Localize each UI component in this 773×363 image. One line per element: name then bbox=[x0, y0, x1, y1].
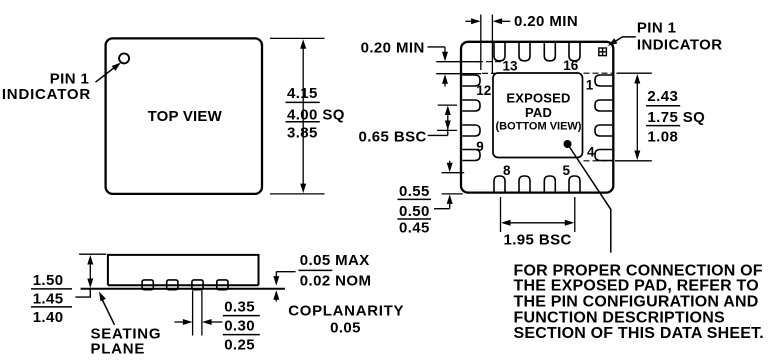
dashed continuation at top-pin bottom edge bbox=[477, 61, 503, 63]
bottom pins 8-5 bbox=[494, 176, 505, 192]
svg-text:0.25: 0.25 bbox=[224, 336, 255, 353]
fraction rule under 2.43 bbox=[646, 105, 680, 107]
side view package body bbox=[108, 255, 259, 285]
left pins 12-9 bbox=[462, 75, 480, 86]
svg-text:2.43: 2.43 bbox=[647, 88, 678, 105]
side view leads bbox=[142, 280, 153, 290]
svg-text:16: 16 bbox=[563, 58, 579, 73]
fraction rule under 4.00 bbox=[286, 121, 320, 123]
fraction rule under 0.05 bbox=[299, 269, 333, 271]
exposed pad outline bbox=[493, 73, 583, 158]
seating plane line bbox=[81, 288, 285, 290]
svg-text:4.15: 4.15 bbox=[287, 85, 318, 102]
svg-text:0.35: 0.35 bbox=[224, 298, 255, 315]
extension line b (lead width) bbox=[201, 291, 203, 336]
fraction rule under 0.50 bbox=[398, 218, 432, 220]
fraction rule under 4.15 bbox=[286, 101, 320, 103]
svg-text:1.45: 1.45 bbox=[33, 291, 64, 308]
arrows for lead width dim bbox=[175, 321, 185, 323]
pin 1 indicator circle (top view) bbox=[119, 53, 129, 63]
svg-text:0.45: 0.45 bbox=[399, 220, 430, 237]
dimension line 1.95 BSC bbox=[505, 222, 571, 224]
svg-text:1.95 BSC: 1.95 BSC bbox=[504, 232, 572, 249]
dimension line body height bbox=[89, 259, 91, 285]
leader from exposed pad dot to note bbox=[570, 147, 611, 253]
svg-text:4.00 SQ: 4.00 SQ bbox=[287, 106, 345, 123]
svg-text:INDICATOR: INDICATOR bbox=[637, 37, 723, 54]
svg-text:8: 8 bbox=[503, 163, 511, 178]
extension line b (1.95 BSC) bbox=[574, 197, 576, 232]
fraction rule under 0.55 bbox=[398, 198, 432, 200]
extension line b (0.65 BSC) bbox=[437, 129, 457, 131]
leader and arrows for standoff dim bbox=[276, 271, 295, 273]
svg-text:PLANE: PLANE bbox=[91, 341, 146, 358]
svg-text:PIN 1: PIN 1 bbox=[637, 19, 677, 36]
svg-text:4: 4 bbox=[587, 145, 595, 160]
exposed pad reference dot bbox=[564, 140, 572, 148]
svg-text:COPLANARITY: COPLANARITY bbox=[288, 303, 404, 320]
extension line a (0.65 BSC) bbox=[438, 104, 457, 106]
dashed continuation at pad top-left bbox=[482, 72, 500, 74]
svg-text:SECTION OF THIS DATA SHEET.: SECTION OF THIS DATA SHEET. bbox=[514, 325, 764, 342]
svg-text:1: 1 bbox=[586, 77, 594, 92]
svg-text:0.55: 0.55 bbox=[399, 183, 430, 200]
svg-text:12: 12 bbox=[476, 83, 491, 98]
svg-text:THE PIN CONFIGURATION AND: THE PIN CONFIGURATION AND bbox=[514, 293, 759, 310]
fraction rule under 0.30 bbox=[223, 334, 260, 336]
leader arrow to pin1 indicator symbol bbox=[612, 37, 636, 44]
extension line bottom (4.00 SQ dim) bbox=[270, 193, 325, 195]
extension line b (left 0.20 MIN) bbox=[436, 73, 481, 75]
fraction rule under 1.75 bbox=[646, 125, 680, 127]
svg-text:0.02 NOM: 0.02 NOM bbox=[300, 273, 372, 290]
arrows for left 0.20 MIN bbox=[428, 46, 446, 48]
dashed line at pad top-right bbox=[584, 72, 614, 74]
svg-text:INDICATOR: INDICATOR bbox=[2, 86, 91, 103]
svg-text:0.20 MIN: 0.20 MIN bbox=[361, 40, 425, 57]
svg-text:5: 5 bbox=[563, 163, 571, 178]
svg-text:PAD: PAD bbox=[525, 105, 552, 120]
svg-text:0.65 BSC: 0.65 BSC bbox=[359, 128, 427, 145]
svg-text:THE EXPOSED PAD, REFER TO: THE EXPOSED PAD, REFER TO bbox=[514, 278, 759, 295]
extension line top (4.00 SQ dim) bbox=[270, 37, 325, 39]
svg-text:9: 9 bbox=[476, 139, 484, 154]
svg-text:1.08: 1.08 bbox=[647, 129, 678, 146]
extension line a (lead width) bbox=[192, 291, 194, 336]
extension line a (lead length dim) bbox=[442, 172, 465, 174]
svg-text:1.40: 1.40 bbox=[33, 309, 64, 326]
leader to 0.65 BSC label bbox=[428, 134, 448, 136]
extension line a (pad dim) bbox=[617, 72, 652, 74]
svg-text:3.85: 3.85 bbox=[287, 124, 318, 141]
extension line b (pad dim) bbox=[615, 160, 652, 162]
leader to 0.50 label bbox=[434, 208, 450, 210]
extension line a (left 0.20 MIN) bbox=[436, 61, 481, 63]
fraction rule under 1.50 bbox=[31, 288, 72, 290]
top view package body outline bbox=[106, 38, 262, 194]
extension line a (1.95 BSC) bbox=[500, 197, 502, 232]
fraction rule under 0.35 bbox=[223, 315, 260, 317]
pin 1 indicator symbol (crossed square) bbox=[599, 48, 607, 56]
svg-text:TOP VIEW: TOP VIEW bbox=[148, 108, 223, 125]
arrows for lead length dim bbox=[449, 161, 451, 165]
dimension arrows 0.65 BSC bbox=[447, 110, 449, 135]
svg-text:1.75 SQ: 1.75 SQ bbox=[647, 109, 705, 126]
svg-text:0.05: 0.05 bbox=[330, 319, 361, 336]
svg-text:(BOTTOM VIEW): (BOTTOM VIEW) bbox=[496, 120, 582, 132]
svg-text:0.20 MIN: 0.20 MIN bbox=[514, 13, 578, 30]
extension line top (body height dim) bbox=[79, 253, 106, 255]
svg-text:0.50: 0.50 bbox=[399, 203, 430, 220]
svg-text:13: 13 bbox=[503, 59, 519, 74]
extension line b (lead length dim) bbox=[442, 193, 463, 195]
top pins 13-16 bbox=[494, 43, 505, 61]
leader arrow to seating plane bbox=[101, 298, 114, 325]
leader from 1.45 to dimension line bbox=[75, 289, 90, 297]
dashed line at pad bottom-right bbox=[584, 160, 614, 162]
svg-text:PIN 1: PIN 1 bbox=[50, 71, 90, 88]
extension line a (top 0.20 MIN) bbox=[480, 15, 482, 71]
svg-text:FUNCTION DESCRIPTIONS: FUNCTION DESCRIPTIONS bbox=[514, 309, 725, 326]
bottom view package outline bbox=[461, 42, 613, 193]
svg-text:0.30: 0.30 bbox=[224, 318, 255, 335]
arrows for top 0.20 MIN bbox=[465, 20, 472, 22]
right pins 1-4 bbox=[595, 75, 612, 86]
fraction rule under 1.45 bbox=[31, 306, 72, 308]
svg-text:EXPOSED: EXPOSED bbox=[506, 90, 570, 105]
leader arrow to pin1 circle bbox=[96, 66, 118, 83]
extension line b (top 0.20 MIN) bbox=[491, 15, 493, 75]
dimension line pad size bbox=[636, 78, 638, 156]
svg-text:1.50: 1.50 bbox=[33, 272, 64, 289]
dimension line 4.00 SQ bbox=[302, 43, 304, 190]
svg-text:0.05 MAX: 0.05 MAX bbox=[300, 252, 370, 269]
